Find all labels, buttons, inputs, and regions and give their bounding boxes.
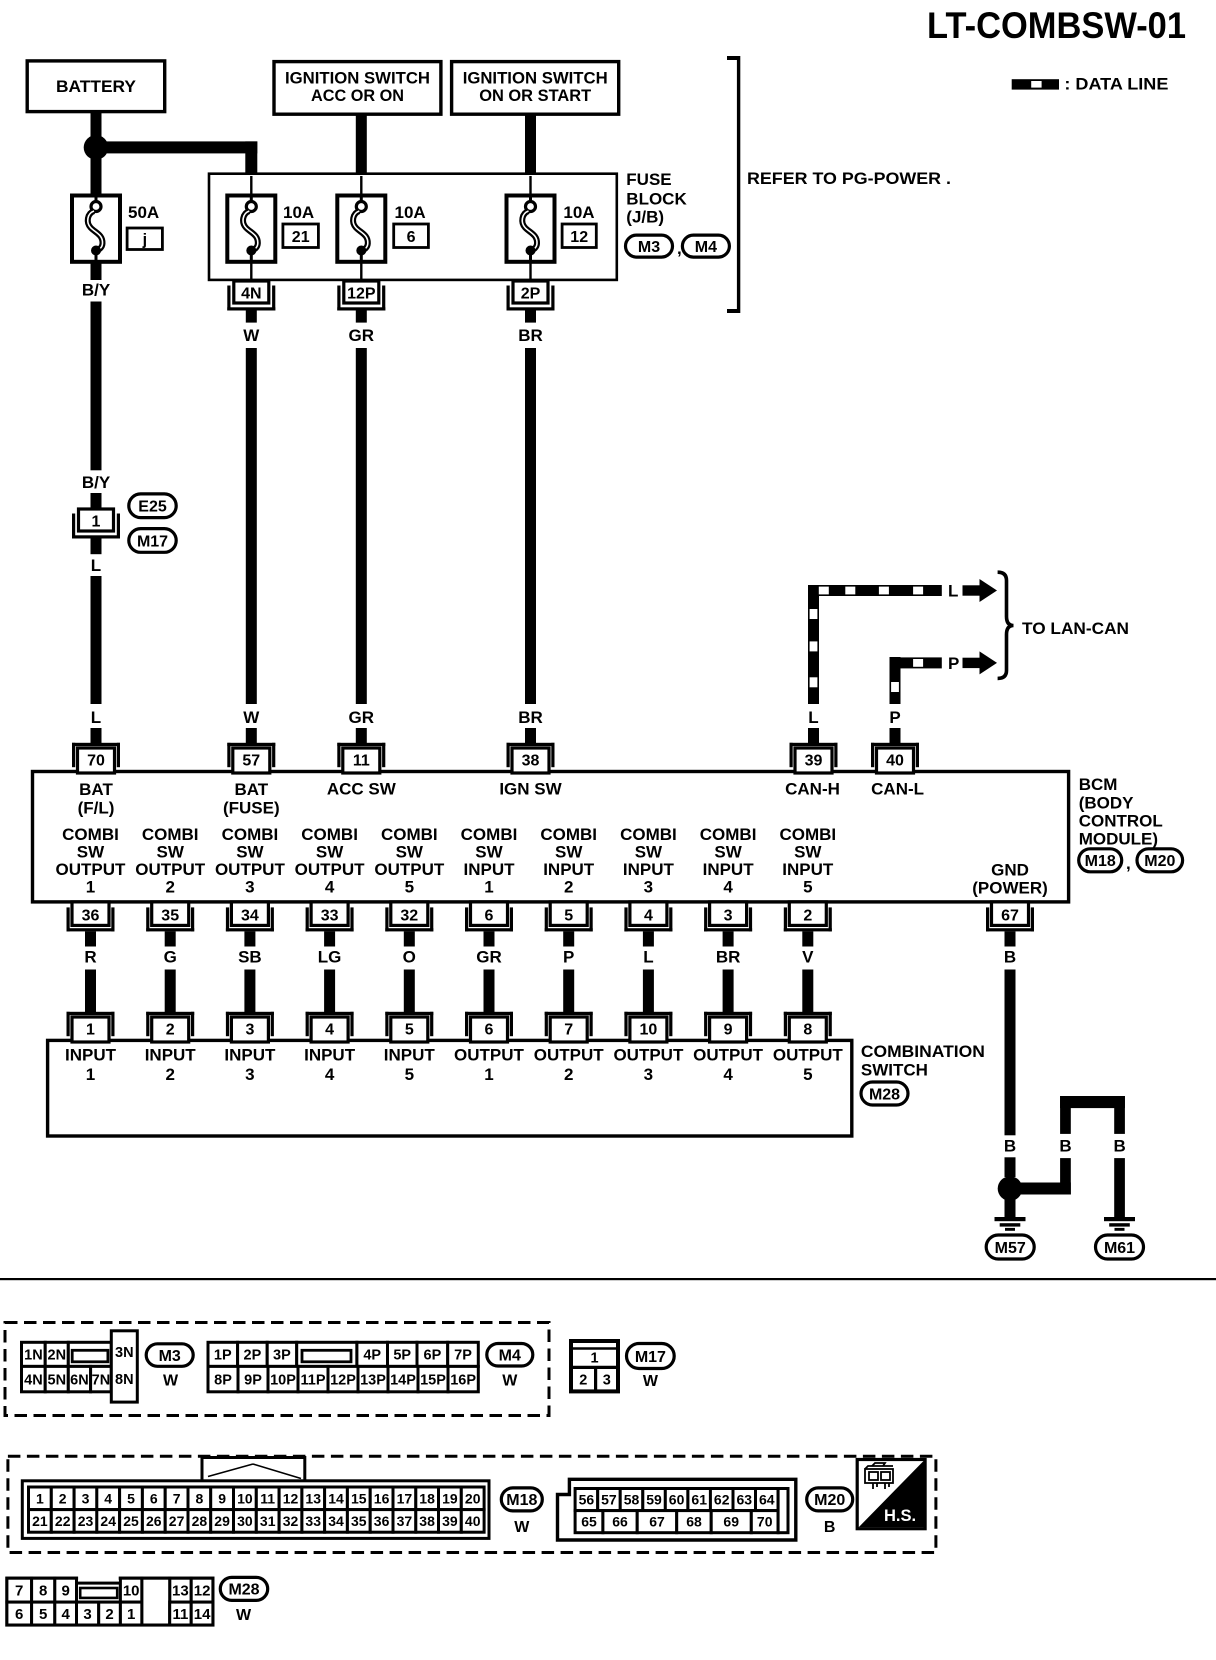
svg-text:(POWER): (POWER) xyxy=(972,879,1048,898)
svg-text:M28: M28 xyxy=(869,1086,900,1103)
svg-text:B: B xyxy=(824,1519,836,1536)
svg-text:6: 6 xyxy=(485,908,494,925)
svg-text:1: 1 xyxy=(86,1021,95,1038)
svg-text:BCM: BCM xyxy=(1079,775,1118,794)
svg-text:SW: SW xyxy=(157,843,185,862)
svg-text:10P: 10P xyxy=(270,1372,296,1388)
svg-text:L: L xyxy=(948,582,958,601)
svg-text:4: 4 xyxy=(644,908,653,925)
svg-text:,: , xyxy=(1126,854,1131,873)
svg-text:38: 38 xyxy=(522,752,540,769)
svg-text:2: 2 xyxy=(105,1606,113,1623)
svg-text:W: W xyxy=(243,326,260,345)
svg-text:BAT: BAT xyxy=(79,780,113,799)
svg-text:56: 56 xyxy=(579,1492,595,1508)
svg-text:39: 39 xyxy=(805,752,823,769)
svg-text:10A: 10A xyxy=(395,203,426,222)
svg-text:G: G xyxy=(164,948,177,967)
svg-text:4: 4 xyxy=(325,1021,334,1038)
svg-text:BATTERY: BATTERY xyxy=(56,77,137,96)
svg-text:5: 5 xyxy=(127,1490,135,1506)
svg-text:34: 34 xyxy=(328,1513,344,1529)
svg-text:1N: 1N xyxy=(24,1348,43,1364)
svg-text:INPUT: INPUT xyxy=(543,860,595,879)
svg-text:M4: M4 xyxy=(499,1348,521,1365)
svg-text:COMBI: COMBI xyxy=(700,825,757,844)
svg-text:14P: 14P xyxy=(390,1372,416,1388)
svg-text:COMBI: COMBI xyxy=(779,825,836,844)
svg-text:OUTPUT: OUTPUT xyxy=(215,860,286,879)
svg-text:M17: M17 xyxy=(137,533,168,550)
svg-text:SW: SW xyxy=(77,843,105,862)
svg-text:67: 67 xyxy=(1001,908,1019,925)
svg-text:40: 40 xyxy=(465,1513,481,1529)
svg-text:GND: GND xyxy=(991,861,1029,880)
svg-text:H.S.: H.S. xyxy=(884,1507,916,1525)
svg-text:B: B xyxy=(1004,948,1016,967)
svg-text:ACC SW: ACC SW xyxy=(327,780,397,799)
svg-text:15P: 15P xyxy=(420,1372,446,1388)
svg-text:7: 7 xyxy=(15,1583,23,1600)
svg-text:11P: 11P xyxy=(301,1372,326,1388)
svg-text:3: 3 xyxy=(245,1065,254,1084)
svg-text:W: W xyxy=(163,1373,179,1390)
svg-text:INPUT: INPUT xyxy=(224,1046,276,1065)
svg-text:18: 18 xyxy=(419,1490,435,1506)
svg-text:3: 3 xyxy=(644,878,653,897)
svg-text:4N: 4N xyxy=(24,1372,43,1388)
svg-text:COMBI: COMBI xyxy=(381,825,438,844)
svg-text:2P: 2P xyxy=(244,1348,262,1364)
svg-text:21: 21 xyxy=(32,1513,48,1529)
svg-text:14: 14 xyxy=(328,1490,344,1506)
svg-text:7N: 7N xyxy=(92,1372,111,1388)
svg-text:COMBI: COMBI xyxy=(620,825,677,844)
svg-text:FUSE: FUSE xyxy=(626,170,671,189)
svg-text:36: 36 xyxy=(374,1513,390,1529)
svg-text:1: 1 xyxy=(127,1606,135,1623)
svg-text:19: 19 xyxy=(442,1490,458,1506)
svg-text:5: 5 xyxy=(405,1021,414,1038)
svg-text:63: 63 xyxy=(737,1492,753,1508)
svg-text:3P: 3P xyxy=(273,1348,291,1364)
svg-text:B: B xyxy=(1004,1137,1016,1156)
svg-text:1: 1 xyxy=(86,878,95,897)
svg-text:12P: 12P xyxy=(330,1372,356,1388)
svg-text:5: 5 xyxy=(803,1065,812,1084)
svg-text:B: B xyxy=(1059,1137,1071,1156)
svg-text:69: 69 xyxy=(723,1514,739,1530)
svg-text:2: 2 xyxy=(579,1373,587,1389)
svg-text:3: 3 xyxy=(83,1606,91,1623)
svg-text:8: 8 xyxy=(39,1583,47,1600)
svg-text:5P: 5P xyxy=(393,1348,411,1364)
svg-text:W: W xyxy=(643,1373,659,1390)
svg-text:14: 14 xyxy=(194,1606,211,1623)
svg-text:24: 24 xyxy=(100,1513,116,1529)
svg-text:9: 9 xyxy=(62,1583,70,1600)
svg-text:BR: BR xyxy=(518,708,543,727)
svg-text:16: 16 xyxy=(374,1490,390,1506)
svg-text:1P: 1P xyxy=(214,1348,232,1364)
svg-text:3: 3 xyxy=(245,1021,254,1038)
svg-text:34: 34 xyxy=(241,908,259,925)
svg-text:3N: 3N xyxy=(115,1345,134,1361)
svg-text:M17: M17 xyxy=(635,1349,666,1366)
svg-text:40: 40 xyxy=(886,752,904,769)
svg-text:COMBI: COMBI xyxy=(62,825,119,844)
svg-text:5: 5 xyxy=(405,1065,414,1084)
svg-text:COMBI: COMBI xyxy=(461,825,518,844)
svg-text:COMBI: COMBI xyxy=(540,825,597,844)
svg-text:: DATA LINE: : DATA LINE xyxy=(1064,75,1168,94)
svg-text:2: 2 xyxy=(803,908,812,925)
svg-text:58: 58 xyxy=(624,1492,640,1508)
svg-text:10A: 10A xyxy=(563,203,594,222)
svg-text:10: 10 xyxy=(237,1490,253,1506)
svg-text:BR: BR xyxy=(716,948,741,967)
svg-text:OUTPUT: OUTPUT xyxy=(613,1046,684,1065)
svg-text:E25: E25 xyxy=(138,499,167,516)
svg-text:INPUT: INPUT xyxy=(623,860,675,879)
svg-text:70: 70 xyxy=(87,752,105,769)
svg-text:3: 3 xyxy=(82,1490,90,1506)
svg-text:17: 17 xyxy=(397,1490,413,1506)
svg-text:SW: SW xyxy=(714,843,742,862)
svg-text:INPUT: INPUT xyxy=(304,1046,356,1065)
svg-text:59: 59 xyxy=(646,1492,662,1508)
svg-text:13: 13 xyxy=(172,1583,189,1600)
svg-text:SW: SW xyxy=(396,843,424,862)
svg-text:1: 1 xyxy=(86,1065,95,1084)
svg-text:2: 2 xyxy=(564,1065,573,1084)
svg-text:M28: M28 xyxy=(228,1582,259,1599)
svg-text:25: 25 xyxy=(123,1513,139,1529)
svg-text:(FUSE): (FUSE) xyxy=(223,799,280,818)
svg-text:66: 66 xyxy=(612,1514,628,1530)
svg-text:33: 33 xyxy=(321,908,339,925)
svg-text:M20: M20 xyxy=(814,1492,845,1509)
svg-text:INPUT: INPUT xyxy=(703,860,755,879)
svg-text:8N: 8N xyxy=(115,1372,134,1388)
svg-text:INPUT: INPUT xyxy=(145,1046,197,1065)
svg-text:B: B xyxy=(1113,1137,1125,1156)
svg-text:REFER TO PG-POWER .: REFER TO PG-POWER . xyxy=(747,169,951,188)
svg-text:11: 11 xyxy=(172,1606,188,1623)
svg-text:4P: 4P xyxy=(363,1348,381,1364)
svg-text:15: 15 xyxy=(351,1490,367,1506)
svg-text:7: 7 xyxy=(173,1490,181,1506)
svg-text:IGNITION SWITCH: IGNITION SWITCH xyxy=(463,68,608,87)
svg-text:P: P xyxy=(889,708,900,727)
svg-text:3: 3 xyxy=(644,1065,653,1084)
svg-text:23: 23 xyxy=(78,1513,94,1529)
svg-text:CAN-L: CAN-L xyxy=(871,780,924,799)
svg-text:7: 7 xyxy=(564,1021,573,1038)
svg-text:2P: 2P xyxy=(521,286,541,303)
svg-text:IGN SW: IGN SW xyxy=(499,780,562,799)
svg-text:SW: SW xyxy=(555,843,583,862)
svg-text:2: 2 xyxy=(165,1065,174,1084)
svg-text:64: 64 xyxy=(759,1492,775,1508)
svg-text:9P: 9P xyxy=(244,1372,262,1388)
svg-text:L: L xyxy=(808,708,818,727)
svg-text:B/Y: B/Y xyxy=(82,473,111,492)
svg-text:6: 6 xyxy=(485,1021,494,1038)
svg-text:TO LAN-CAN: TO LAN-CAN xyxy=(1022,619,1129,638)
svg-text:CAN-H: CAN-H xyxy=(785,780,840,799)
svg-text:3: 3 xyxy=(724,908,733,925)
svg-text:OUTPUT: OUTPUT xyxy=(773,1046,844,1065)
svg-text:O: O xyxy=(403,948,416,967)
svg-text:2: 2 xyxy=(166,1021,175,1038)
svg-text:12: 12 xyxy=(283,1490,299,1506)
svg-text:M4: M4 xyxy=(695,239,717,256)
svg-text:33: 33 xyxy=(305,1513,321,1529)
svg-text:28: 28 xyxy=(192,1513,208,1529)
svg-text:67: 67 xyxy=(649,1514,665,1530)
svg-text:10A: 10A xyxy=(283,203,314,222)
svg-text:OUTPUT: OUTPUT xyxy=(534,1046,605,1065)
svg-text:4: 4 xyxy=(723,1065,733,1084)
svg-text:M18: M18 xyxy=(506,1492,537,1509)
svg-text:8P: 8P xyxy=(214,1372,232,1388)
svg-text:SW: SW xyxy=(475,843,503,862)
svg-text:M18: M18 xyxy=(1085,853,1116,870)
svg-text:LT-COMBSW-01: LT-COMBSW-01 xyxy=(927,5,1186,46)
svg-text:COMBI: COMBI xyxy=(301,825,358,844)
svg-text:2: 2 xyxy=(59,1490,67,1506)
svg-text:68: 68 xyxy=(686,1514,702,1530)
svg-text:2: 2 xyxy=(564,878,573,897)
svg-text:36: 36 xyxy=(82,908,100,925)
svg-text:5: 5 xyxy=(564,908,573,925)
svg-text:L: L xyxy=(91,556,101,575)
svg-text:OUTPUT: OUTPUT xyxy=(135,860,206,879)
svg-text:GR: GR xyxy=(349,708,375,727)
svg-text:LG: LG xyxy=(318,948,342,967)
svg-text:6P: 6P xyxy=(424,1348,442,1364)
svg-text:(J/B): (J/B) xyxy=(626,208,664,227)
svg-text:21: 21 xyxy=(292,229,310,246)
svg-text:OUTPUT: OUTPUT xyxy=(693,1046,764,1065)
svg-text:20: 20 xyxy=(465,1490,481,1506)
svg-text:31: 31 xyxy=(260,1513,276,1529)
svg-text:10: 10 xyxy=(123,1583,140,1600)
svg-text:M20: M20 xyxy=(1144,853,1175,870)
svg-text:W: W xyxy=(243,708,260,727)
svg-text:SW: SW xyxy=(236,843,264,862)
svg-text:P: P xyxy=(563,948,574,967)
svg-text:MODULE): MODULE) xyxy=(1079,830,1158,849)
svg-text:1: 1 xyxy=(484,1065,493,1084)
svg-text:COMBI: COMBI xyxy=(222,825,279,844)
svg-text:5: 5 xyxy=(803,878,812,897)
svg-text:4: 4 xyxy=(104,1490,112,1506)
svg-text:M61: M61 xyxy=(1104,1240,1135,1257)
svg-text:4: 4 xyxy=(723,878,733,897)
svg-text:6: 6 xyxy=(150,1490,158,1506)
svg-text:10: 10 xyxy=(640,1021,658,1038)
svg-text:6N: 6N xyxy=(70,1372,89,1388)
svg-text:IGNITION SWITCH: IGNITION SWITCH xyxy=(285,68,430,87)
svg-text:GR: GR xyxy=(476,948,502,967)
svg-text:11: 11 xyxy=(353,752,370,769)
svg-text:SW: SW xyxy=(635,843,663,862)
svg-text:6: 6 xyxy=(15,1606,23,1623)
svg-text:57: 57 xyxy=(601,1492,617,1508)
svg-text:R: R xyxy=(84,948,96,967)
svg-text:L: L xyxy=(91,708,101,727)
svg-text:M57: M57 xyxy=(995,1240,1026,1257)
svg-text:11: 11 xyxy=(260,1490,275,1506)
svg-text:3: 3 xyxy=(245,878,254,897)
svg-text:INPUT: INPUT xyxy=(464,860,516,879)
svg-text:COMBI: COMBI xyxy=(142,825,199,844)
svg-text:j: j xyxy=(142,232,147,249)
svg-text:9: 9 xyxy=(218,1490,226,1506)
svg-text:12P: 12P xyxy=(347,286,376,303)
svg-text:61: 61 xyxy=(691,1492,707,1508)
svg-text:INPUT: INPUT xyxy=(782,860,834,879)
svg-text:COMBINATION: COMBINATION xyxy=(861,1042,985,1061)
svg-text:65: 65 xyxy=(581,1514,597,1530)
svg-text:M3: M3 xyxy=(638,239,660,256)
svg-text:2N: 2N xyxy=(48,1348,67,1364)
svg-text:INPUT: INPUT xyxy=(384,1046,436,1065)
svg-text:1: 1 xyxy=(36,1490,44,1506)
svg-text:4: 4 xyxy=(62,1606,71,1623)
svg-text:CONTROL: CONTROL xyxy=(1079,812,1163,831)
svg-text:12: 12 xyxy=(570,229,588,246)
svg-text:SB: SB xyxy=(238,948,262,967)
svg-text:L: L xyxy=(643,948,653,967)
svg-text:W: W xyxy=(502,1373,518,1390)
svg-text:13P: 13P xyxy=(360,1372,386,1388)
svg-text:1: 1 xyxy=(484,878,493,897)
svg-text:(F/L): (F/L) xyxy=(78,799,115,818)
svg-text:57: 57 xyxy=(242,752,260,769)
svg-text:7P: 7P xyxy=(454,1348,472,1364)
svg-text:BLOCK: BLOCK xyxy=(626,190,687,209)
svg-text:5N: 5N xyxy=(48,1372,67,1388)
svg-text:W: W xyxy=(236,1607,252,1624)
svg-text:5: 5 xyxy=(39,1606,47,1623)
svg-text:5: 5 xyxy=(405,878,414,897)
svg-text:4N: 4N xyxy=(241,286,261,303)
svg-text:32: 32 xyxy=(400,908,418,925)
svg-text:4: 4 xyxy=(325,878,335,897)
svg-text:35: 35 xyxy=(161,908,179,925)
svg-text:12: 12 xyxy=(194,1583,211,1600)
svg-text:B/Y: B/Y xyxy=(82,281,111,300)
svg-text:35: 35 xyxy=(351,1513,367,1529)
svg-text:W: W xyxy=(514,1519,530,1536)
svg-text:50A: 50A xyxy=(128,203,159,222)
svg-text:8: 8 xyxy=(803,1021,812,1038)
svg-text:2: 2 xyxy=(165,878,174,897)
svg-text:1: 1 xyxy=(590,1351,598,1367)
svg-text:BR: BR xyxy=(518,326,543,345)
svg-text:ACC OR ON: ACC OR ON xyxy=(311,86,404,105)
svg-text:V: V xyxy=(802,948,814,967)
svg-text:38: 38 xyxy=(419,1513,435,1529)
svg-text:M3: M3 xyxy=(159,1348,181,1365)
svg-text:3: 3 xyxy=(603,1373,611,1389)
svg-text:26: 26 xyxy=(146,1513,162,1529)
svg-text:22: 22 xyxy=(55,1513,71,1529)
svg-text:P: P xyxy=(948,654,959,673)
svg-text:4: 4 xyxy=(325,1065,335,1084)
svg-text:6: 6 xyxy=(407,229,416,246)
svg-text:8: 8 xyxy=(196,1490,204,1506)
svg-text:29: 29 xyxy=(214,1513,230,1529)
svg-text:OUTPUT: OUTPUT xyxy=(56,860,127,879)
svg-text:37: 37 xyxy=(397,1513,413,1529)
svg-text:62: 62 xyxy=(714,1492,730,1508)
svg-text:OUTPUT: OUTPUT xyxy=(374,860,445,879)
svg-text:16P: 16P xyxy=(450,1372,476,1388)
svg-text:SW: SW xyxy=(794,843,822,862)
svg-text:32: 32 xyxy=(283,1513,299,1529)
svg-text:GR: GR xyxy=(349,326,375,345)
svg-text:13: 13 xyxy=(305,1490,321,1506)
svg-text:60: 60 xyxy=(669,1492,685,1508)
svg-text:(BODY: (BODY xyxy=(1079,794,1134,813)
svg-text:9: 9 xyxy=(724,1021,733,1038)
svg-text:SWITCH: SWITCH xyxy=(861,1061,928,1080)
svg-text:70: 70 xyxy=(757,1514,773,1530)
svg-text:30: 30 xyxy=(237,1513,253,1529)
svg-text:27: 27 xyxy=(169,1513,185,1529)
svg-text:OUTPUT: OUTPUT xyxy=(454,1046,525,1065)
svg-text:1: 1 xyxy=(92,514,101,531)
svg-text:SW: SW xyxy=(316,843,344,862)
svg-text:INPUT: INPUT xyxy=(65,1046,117,1065)
svg-text:39: 39 xyxy=(442,1513,458,1529)
svg-text:BAT: BAT xyxy=(234,780,268,799)
svg-text:OUTPUT: OUTPUT xyxy=(295,860,366,879)
svg-text:ON OR START: ON OR START xyxy=(479,86,592,105)
